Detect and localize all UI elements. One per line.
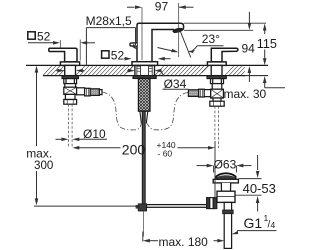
left valve: shank through counter (65, 65, 76, 75)
svg-text:200: 200 (122, 142, 146, 158)
countertop (hatched section) (26, 65, 268, 75)
spout base plate (132, 62, 158, 66)
svg-text:max. 30: max. 30 (224, 87, 267, 101)
dim: 97 top dimension (127, 0, 194, 60)
left supply pipe Ø10 (dashed) (69, 104, 73, 148)
svg-text:M28x1,5: M28x1,5 (86, 14, 132, 28)
dim: Ø63 (drain flange) (197, 158, 252, 173)
svg-text:40-53: 40-53 (243, 181, 276, 196)
left valve: lever handle (49, 48, 77, 62)
right valve: escutcheon (207, 62, 226, 66)
svg-text:G1: G1 (244, 215, 263, 231)
center spout body (137, 23, 184, 62)
horizontal pop-up rod to drain (147, 205, 208, 208)
drain: tailpipe (224, 202, 231, 248)
svg-text:94: 94 (242, 42, 256, 56)
spout locknut (133, 76, 156, 79)
right valve: lever handle (211, 48, 238, 62)
drain: tailpipe nut (dark) (223, 210, 234, 214)
right valve: side fitting + compression nut (199, 89, 211, 97)
pop-up rod T-junction (136, 204, 147, 211)
shank taper to rod (140, 111, 148, 123)
dim: square-52 left label (28, 29, 51, 43)
left valve: braided hose stub (90, 89, 99, 96)
right valve: braided hose stub (188, 90, 198, 97)
svg-text:300: 300 (34, 159, 53, 172)
thin rod axis below junction (143, 211, 145, 237)
svg-text:23°: 23° (202, 32, 220, 46)
dim: square-52 center label + arrows (spout base) (102, 48, 171, 62)
svg-text:- 60: - 60 (158, 149, 173, 159)
svg-text:max. 180: max. 180 (159, 235, 209, 249)
svg-text:Ø63: Ø63 (214, 158, 237, 172)
spout shank hole through counter (135, 65, 155, 75)
spout threaded shank (138, 79, 150, 112)
svg-text:97: 97 (155, 0, 169, 13)
dim: hole arrows at left valve shank (56, 69, 84, 73)
svg-text:4: 4 (271, 220, 276, 230)
svg-text:115: 115 (257, 37, 277, 51)
right supply pipe (dashed) (215, 106, 219, 148)
drain: pop-up plug dome (216, 173, 235, 179)
right valve: body below deck (210, 79, 224, 107)
dim: 115 (total height) (184, 23, 277, 65)
dim: G1 1/4 (tailpipe thread) (232, 213, 277, 234)
dim: square-52 left dimension line + arrows (28, 40, 95, 61)
dim: max.300 (left vertical) (26, 66, 137, 207)
drain: body (217, 191, 235, 202)
right flexible hose (dash-dot) to spout shank (147, 93, 188, 130)
dim: max.180 (bottom horizontal) (143, 232, 225, 249)
water stream line at 23deg (180, 31, 191, 58)
dim: 94 (outlet height) (184, 12, 255, 82)
dim: 200 +140/-60 (horizontal) (72, 140, 215, 200)
dim: hole arrows at spout shank + Ø34 label (127, 69, 188, 91)
left valve: escutcheon (60, 62, 79, 66)
left flexible hose (dash-dot) to spout shank (102, 92, 141, 130)
drain: flange (Ø63) (213, 179, 238, 183)
right valve: locknut (207, 76, 226, 79)
right valve: shank through counter (211, 65, 222, 75)
pop-up rod (vertical) (142, 111, 145, 204)
drain: ball joint boss (207, 198, 217, 209)
dim: Ø10 supply pipe label (56, 127, 108, 141)
dim: 40-53 (clamping range) (236, 155, 276, 212)
left valve: locknut (62, 76, 79, 79)
svg-text:52: 52 (111, 48, 125, 62)
dim: 23deg angle arc + arrows (158, 32, 224, 53)
pop-up knob on spout (130, 43, 137, 46)
svg-text:Ø34: Ø34 (164, 77, 187, 91)
svg-text:52: 52 (37, 29, 51, 43)
left valve: side fitting + compression nut (77, 88, 91, 96)
dim: max.30 (deck thickness) (224, 76, 286, 101)
drain: neck (221, 183, 230, 191)
counter hatching (43, 66, 245, 76)
svg-text:Ø10: Ø10 (83, 127, 106, 141)
spout aerator outlet (dark) (172, 27, 183, 33)
dim: M28x1,5 label + leader (86, 14, 137, 65)
left valve: body below deck (64, 79, 77, 105)
